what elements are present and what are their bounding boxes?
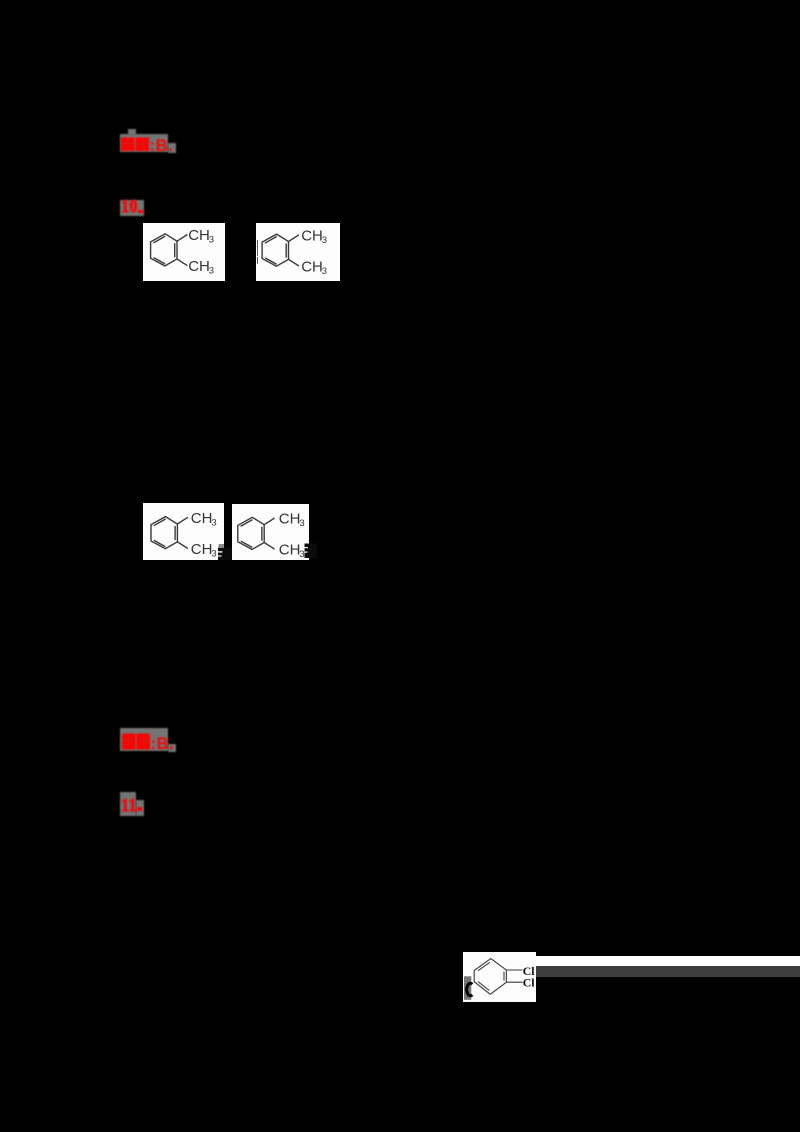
svg-text::B.: :B. — [150, 137, 174, 153]
svg-text:3: 3 — [321, 266, 326, 277]
svg-text:3: 3 — [209, 266, 214, 277]
svg-text:CH: CH — [188, 258, 210, 275]
svg-text:3: 3 — [321, 235, 326, 246]
svg-text:3: 3 — [299, 518, 304, 529]
svg-text:CH: CH — [301, 227, 323, 244]
svg-text:CH: CH — [188, 227, 210, 244]
svg-text:3: 3 — [211, 548, 216, 559]
svg-text::B.: :B. — [151, 735, 175, 751]
svg-text:CH: CH — [278, 510, 300, 527]
svg-text:CH: CH — [191, 510, 213, 527]
svg-text:3: 3 — [209, 235, 214, 246]
svg-text:CH: CH — [278, 541, 300, 558]
svg-text:CH: CH — [301, 258, 323, 275]
svg-text:3: 3 — [211, 517, 216, 528]
svg-text:Cl: Cl — [523, 975, 536, 989]
svg-text:CH: CH — [191, 541, 213, 558]
